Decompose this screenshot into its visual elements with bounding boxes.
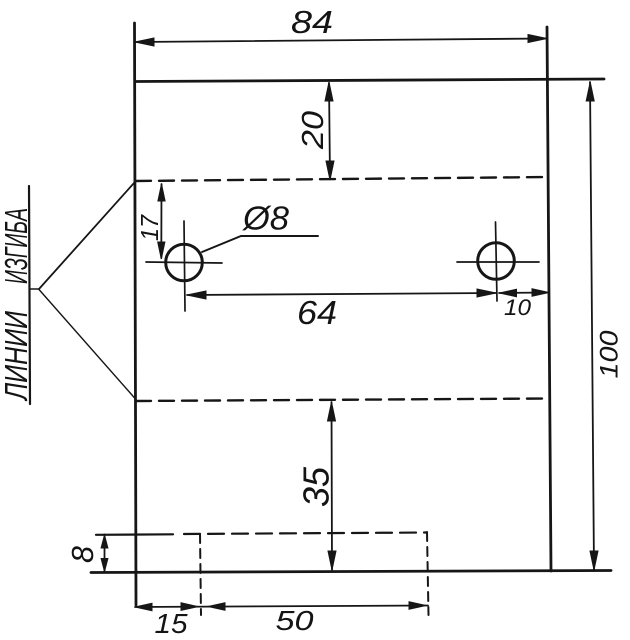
hole right horizontal centerline xyxy=(457,261,539,263)
text 15 xyxy=(155,614,187,633)
dimension 50 right arrow xyxy=(409,602,426,610)
dimension 84 right arrow xyxy=(528,35,547,43)
dimension 84 left arrow xyxy=(135,38,154,46)
dimension 64 left arrow xyxy=(187,291,206,299)
bend line 1 (dashed) xyxy=(136,177,548,181)
dimension 17 line xyxy=(160,184,162,258)
dimension 64 line xyxy=(187,293,496,295)
dimension 15-50 baseline xyxy=(135,606,428,608)
text 50 xyxy=(276,611,313,631)
plate left edge xyxy=(135,23,137,605)
label word LINII xyxy=(5,311,27,401)
dimension 20 up arrow xyxy=(325,82,333,101)
dimension 84 line xyxy=(135,39,547,43)
dimension 35 down arrow xyxy=(328,551,336,570)
dimension 100 down arrow xyxy=(590,551,598,570)
hole left horizontal centerline xyxy=(146,262,222,263)
dimension 35 line xyxy=(331,402,334,570)
dimension 17 down arrow xyxy=(158,242,165,259)
dimension 35 up arrow xyxy=(328,402,336,421)
dimension 8 up arrow xyxy=(101,535,108,548)
text 8 xyxy=(72,546,94,562)
text 10 xyxy=(505,299,531,315)
hole left circle xyxy=(166,244,203,281)
dimension 10 right arrow xyxy=(532,289,549,297)
text 64 xyxy=(299,301,336,325)
text 84 xyxy=(292,11,332,34)
dimension 17 up arrow xyxy=(158,184,165,201)
label word IZGIBA xyxy=(5,209,28,283)
bend line 2 (dashed) xyxy=(136,399,548,402)
flap top line dashed part xyxy=(184,533,427,535)
text 17 xyxy=(141,214,158,240)
label leader lower xyxy=(39,290,136,400)
hole right circle xyxy=(478,243,515,280)
text diameter 8 xyxy=(242,206,289,231)
label leader upper xyxy=(39,183,134,289)
dimension 8 line xyxy=(104,535,106,572)
flap dash-dot vertical right xyxy=(427,532,429,615)
plate top edge xyxy=(135,79,604,82)
dimension 100 up arrow xyxy=(586,82,594,101)
text 35 xyxy=(303,467,329,506)
dimension 20 line xyxy=(329,83,330,179)
dimension 100 line xyxy=(590,82,594,570)
dimension 20 down arrow xyxy=(326,161,334,180)
dimension 10 line xyxy=(499,292,549,295)
label diameter leader xyxy=(202,236,318,252)
hole left vertical centerline xyxy=(184,221,185,311)
plate bottom edge xyxy=(91,571,611,573)
flap top line solid part xyxy=(96,533,173,536)
dimension 50 left arrow xyxy=(208,603,225,611)
dimension 15 left arrow xyxy=(135,603,152,611)
hole right vertical centerline xyxy=(496,222,498,301)
label leader tick xyxy=(30,288,40,290)
dimension 10 left arrow xyxy=(500,289,517,297)
dimension 8 extension tick xyxy=(91,571,98,573)
text 20 xyxy=(302,111,324,149)
dimension 8 down arrow xyxy=(101,559,108,572)
text 100 xyxy=(600,331,618,378)
dimension 15 right arrow xyxy=(181,603,198,611)
label underline xyxy=(29,186,30,404)
plate right edge xyxy=(547,27,551,571)
dimension 64 right arrow xyxy=(477,289,496,297)
flap dash-dot vertical left xyxy=(200,534,201,615)
